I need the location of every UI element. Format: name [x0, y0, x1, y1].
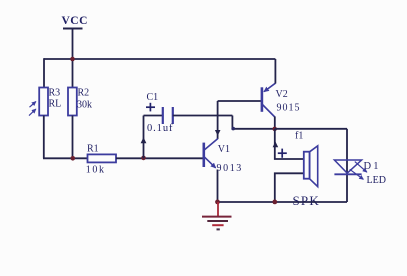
LED D1 cathode bar	[334, 173, 361, 175]
wire speaker bottom branch	[275, 173, 304, 202]
wire junction to LED top	[275, 128, 347, 130]
ground bar 2	[207, 220, 228, 222]
ground stub	[217, 202, 219, 216]
svg-text:9013: 9013	[217, 163, 243, 174]
flow arrow up on C1 branch	[141, 137, 147, 143]
wire bottom horizontal to R1	[43, 157, 88, 159]
transistor V1 emitter diagonal with NPN arrow	[204, 157, 215, 168]
wire rail to R2 top	[72, 59, 74, 88]
wire C1 branch vertical	[143, 116, 145, 159]
wire top rail	[44, 58, 275, 60]
svg-text:0.1uf: 0.1uf	[147, 123, 173, 134]
node junction VCC/rail	[70, 57, 75, 62]
wire speaker plus branch	[275, 129, 304, 159]
wire C1 right lead	[173, 115, 233, 117]
node junction V2 collector	[272, 127, 277, 132]
svg-text:f1: f1	[295, 130, 303, 141]
transistor V2 base bar	[261, 87, 264, 112]
wire C1 left lead	[144, 115, 164, 117]
svg-text:SPK: SPK	[293, 193, 320, 208]
wire C1 net corner to collector junction	[232, 116, 274, 129]
speaker SPK body	[304, 152, 310, 179]
ground bar 1	[202, 216, 232, 218]
transistor V1 collector diagonal	[204, 139, 218, 150]
wire rail to R3 top	[43, 58, 45, 87]
photoresistor light arrow 2	[29, 109, 36, 116]
wire R3 bottom	[43, 116, 45, 159]
wire right side vertical through LED	[346, 129, 348, 202]
transistor V2 collector diagonal	[262, 105, 274, 118]
svg-text:R3: R3	[49, 88, 61, 99]
node corner blob on C1 net	[231, 127, 235, 131]
resistor R2 body	[68, 88, 77, 116]
wire V2 base horizontal	[218, 100, 261, 102]
node junction speaker bottom	[272, 200, 277, 205]
capacitor C1 left plate	[162, 107, 164, 124]
wire V1 collector to V2 base vertical	[217, 101, 219, 139]
LED light arrow 2	[350, 169, 364, 179]
wire VCC vertical	[72, 29, 74, 60]
svg-text:9015: 9015	[277, 103, 301, 114]
LED D1 triangle	[334, 160, 361, 173]
photoresistor light arrow 1	[30, 102, 36, 108]
resistor R1 body	[88, 154, 117, 162]
wire V1 emitter down	[217, 170, 219, 203]
wire V2 collector down to junction	[274, 117, 276, 129]
wire bottom rail	[218, 201, 348, 203]
transistor V1 base bar	[203, 143, 206, 167]
svg-text:R2: R2	[78, 88, 90, 99]
wire rail corner down to V2 emitter	[274, 59, 276, 84]
svg-text:10k: 10k	[86, 165, 106, 176]
flow arrow down on collector wire	[215, 130, 221, 136]
node junction R2 bottom	[71, 156, 76, 161]
ground bar 4	[217, 228, 220, 230]
wire R1 to V1 base	[116, 157, 203, 159]
wire R2 bottom	[72, 116, 74, 159]
ground bar 3	[212, 224, 223, 226]
label C1 polarity +	[146, 106, 155, 108]
speaker horn	[310, 146, 318, 187]
svg-text:C1: C1	[147, 92, 159, 103]
svg-text:VCC: VCC	[62, 15, 88, 27]
transistor V2 emitter diagonal with PNP arrow toward bar	[264, 83, 275, 91]
svg-text:V2: V2	[276, 89, 288, 100]
svg-text:R1: R1	[87, 144, 99, 155]
resistor R3 (photoresistor RL) body	[39, 88, 48, 116]
svg-text:LED: LED	[367, 175, 386, 186]
svg-text:30k: 30k	[77, 100, 92, 111]
node junction C1 branch	[141, 156, 146, 161]
label speaker polarity +	[278, 152, 287, 154]
LED light arrow 1	[355, 162, 367, 173]
VCC power symbol T-bar	[63, 28, 83, 30]
svg-text:V1: V1	[218, 144, 230, 155]
capacitor C1 right plate	[172, 107, 174, 124]
flow arrow up on speaker branch	[273, 142, 279, 148]
svg-text:D1: D1	[364, 161, 381, 172]
svg-text:RL: RL	[49, 99, 62, 110]
node junction V1 emitter / ground	[215, 200, 220, 205]
